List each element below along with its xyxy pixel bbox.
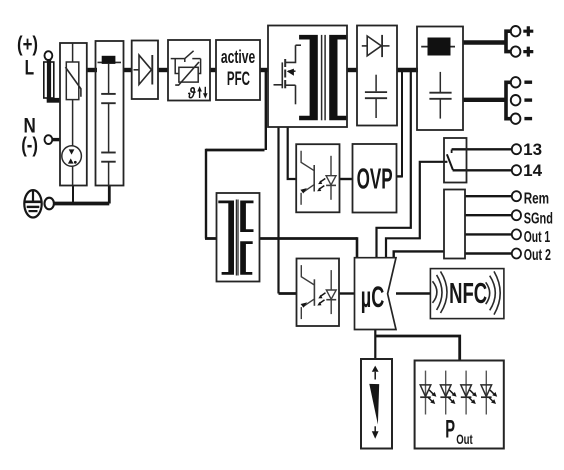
svg-text:OVP: OVP	[357, 163, 393, 195]
svg-text:active: active	[221, 46, 255, 67]
svg-text:(+): (+)	[17, 33, 38, 56]
svg-text:PFC: PFC	[227, 68, 250, 90]
svg-text:Out 2: Out 2	[524, 247, 551, 264]
svg-text:Out: Out	[456, 431, 473, 447]
svg-text:SGnd: SGnd	[524, 211, 553, 228]
svg-text:Out 1: Out 1	[524, 229, 551, 246]
svg-text:µC: µC	[361, 281, 385, 314]
svg-text:14: 14	[523, 162, 542, 180]
svg-text:(-): (-)	[21, 134, 38, 157]
svg-text:Rem: Rem	[524, 190, 549, 207]
svg-text:P: P	[445, 416, 455, 444]
svg-text:NFC: NFC	[449, 278, 487, 310]
svg-text:L: L	[25, 55, 34, 79]
svg-text:13: 13	[523, 141, 542, 159]
svg-text:ϑ: ϑ	[187, 86, 196, 103]
